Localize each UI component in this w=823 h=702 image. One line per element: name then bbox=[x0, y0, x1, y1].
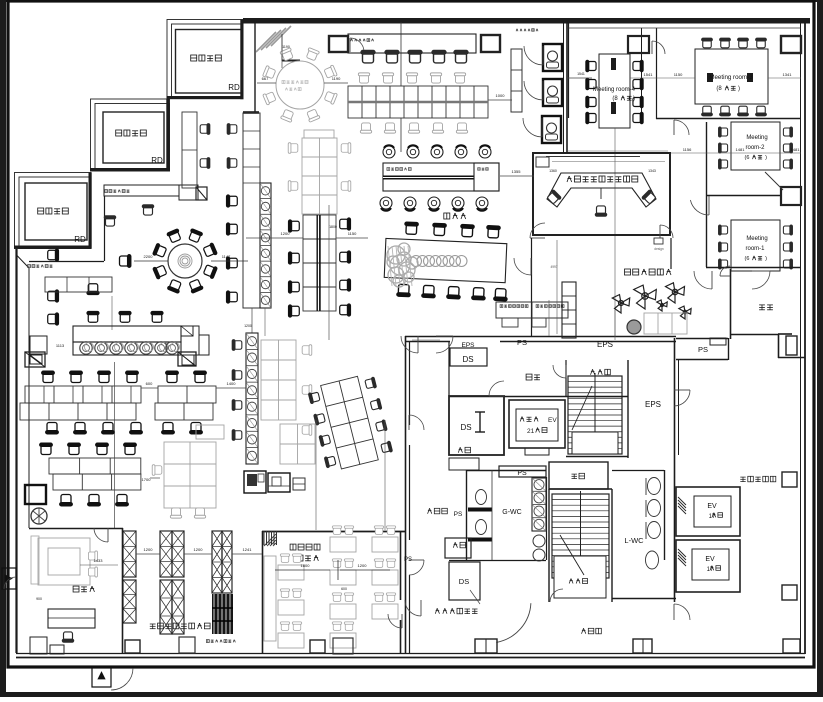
svg-text:EPS: EPS bbox=[645, 400, 661, 409]
meeting room 2 table bbox=[731, 122, 780, 170]
monitoring console desk bbox=[547, 173, 656, 207]
box left of counter bbox=[30, 336, 47, 354]
monitoring inner lines bbox=[552, 161, 665, 163]
floor left wall bbox=[15, 249, 17, 653]
svg-text:600: 600 bbox=[146, 381, 153, 386]
chairs left of lower strip bbox=[232, 340, 242, 351]
EV shaft 2 bbox=[676, 540, 740, 592]
meeting rooms dimension line bbox=[660, 152, 801, 154]
svg-text:1241: 1241 bbox=[243, 547, 253, 552]
door core band west bbox=[401, 336, 418, 353]
desk column A bbox=[182, 112, 197, 188]
svg-text:1355: 1355 bbox=[512, 169, 522, 174]
light desk cluster upper bbox=[302, 138, 337, 214]
columns bottom wall bbox=[125, 640, 140, 653]
G-WC room bbox=[466, 470, 546, 472]
PS box right bbox=[676, 338, 728, 340]
entrance west wall bbox=[531, 238, 533, 336]
svg-text:Meeting room-3: Meeting room-3 bbox=[709, 74, 753, 81]
svg-text:1190: 1190 bbox=[282, 45, 290, 49]
cabinet column B bbox=[243, 113, 260, 308]
utility light table bbox=[38, 538, 90, 585]
bottom wall exit box bbox=[92, 667, 111, 687]
light desk cluster lower bbox=[261, 340, 296, 420]
svg-text:RD: RD bbox=[74, 235, 86, 244]
office long table stools top bbox=[383, 146, 395, 158]
office long table stools bottom bbox=[380, 197, 392, 209]
utility dim bbox=[80, 564, 118, 566]
G-WC scallop cabinet bbox=[532, 478, 546, 531]
desk cluster L2 desks bbox=[49, 458, 141, 474]
svg-text:1400: 1400 bbox=[227, 381, 237, 386]
corridor B labels bbox=[428, 508, 430, 513]
light box above bbox=[304, 130, 334, 138]
page border frame bbox=[0, 0, 6, 697]
corridor B west wall bbox=[405, 336, 407, 654]
hatch strip lower bbox=[246, 333, 258, 464]
column right wall mid bbox=[786, 336, 797, 355]
svg-text:PS: PS bbox=[517, 338, 527, 347]
floor bottom wall bbox=[16, 653, 805, 655]
locker strip 1 bbox=[123, 531, 136, 577]
L-WC fixtures bbox=[648, 478, 661, 495]
big door arc corridor A bbox=[496, 603, 531, 642]
printer small bbox=[293, 478, 305, 490]
column top c3 bbox=[628, 36, 649, 53]
svg-text:design: design bbox=[654, 247, 664, 251]
meeting room 3 table bbox=[695, 49, 768, 104]
svg-text:Meeting: Meeting bbox=[746, 135, 767, 141]
seminar dimension bbox=[275, 569, 330, 571]
anteroom labels bbox=[526, 374, 532, 380]
cabinet strip right of desks bbox=[511, 49, 522, 112]
svg-text:): ) bbox=[633, 96, 635, 102]
escalator hatch top-left bbox=[256, 32, 276, 52]
svg-text:(6: (6 bbox=[745, 256, 750, 262]
dim label 2200 bbox=[134, 260, 168, 262]
anteroom 前室 wall bbox=[730, 269, 732, 339]
core top wall bbox=[405, 336, 676, 338]
svg-text:1000: 1000 bbox=[496, 93, 506, 98]
storage 倉庫 bbox=[549, 462, 608, 489]
desk cluster L1 chairs mid bbox=[46, 423, 59, 434]
door MR2 area bbox=[690, 200, 709, 215]
left wall exit box bbox=[2, 568, 16, 589]
hot water 給湯 lower bbox=[445, 538, 471, 558]
svg-text:1360: 1360 bbox=[549, 169, 557, 173]
seminar tables bbox=[278, 565, 304, 580]
svg-text:EPS: EPS bbox=[597, 340, 613, 349]
locker strip 3 bbox=[212, 531, 222, 593]
svg-text:600: 600 bbox=[341, 587, 347, 591]
svg-text:G-WC: G-WC bbox=[502, 509, 521, 516]
locker dim line bbox=[136, 553, 160, 555]
svg-text:L-WC: L-WC bbox=[624, 536, 644, 545]
door 附室 bbox=[489, 381, 504, 396]
svg-text:1800: 1800 bbox=[329, 225, 337, 229]
corridor A label bbox=[582, 628, 584, 633]
desk cluster L1 chairs top bbox=[42, 371, 55, 382]
DS box top bbox=[450, 348, 487, 366]
svg-text:1541: 1541 bbox=[644, 72, 654, 77]
door entrance west bbox=[514, 258, 531, 275]
desk rows upper office bbox=[361, 51, 375, 63]
roof box 1 (4F roof) bbox=[167, 20, 243, 99]
hot water 給湯 upper bbox=[449, 458, 479, 470]
door corridor doors bbox=[409, 415, 424, 430]
EV hall label bbox=[740, 476, 745, 478]
door MR1 entrance bbox=[694, 271, 712, 289]
meeting room 4 walls bbox=[568, 21, 570, 118]
single chairs upper left bbox=[142, 205, 153, 215]
meeting room 2 walls bbox=[706, 122, 708, 267]
round table mid-left bbox=[168, 244, 202, 278]
desk cluster L2 chairs below bbox=[60, 495, 73, 506]
utility small boxes bbox=[30, 637, 47, 654]
upper office glass wall bbox=[254, 21, 256, 112]
svg-text:1200: 1200 bbox=[194, 547, 204, 552]
seminar room label bbox=[290, 544, 296, 550]
dim 600 1400 bbox=[141, 387, 158, 389]
locker strip 2 bbox=[160, 531, 172, 577]
svg-text:(8: (8 bbox=[612, 96, 618, 102]
door column c3 side bbox=[652, 41, 665, 54]
svg-text:1200: 1200 bbox=[244, 324, 252, 328]
utility room label bbox=[73, 586, 79, 592]
door 前室 bbox=[720, 266, 730, 276]
svg-text:1481: 1481 bbox=[736, 147, 746, 152]
svg-text:): ) bbox=[765, 256, 767, 262]
desk cluster L2 chairs top bbox=[40, 443, 53, 454]
monitoring room bottom door bbox=[530, 223, 545, 238]
door stairA bbox=[553, 365, 566, 378]
svg-text:1343: 1343 bbox=[648, 169, 656, 173]
dim horizontal mid bbox=[412, 339, 440, 341]
dim vertical x557 entrance bbox=[556, 240, 558, 334]
dark angled cluster east bbox=[307, 373, 393, 473]
seminar room walls bbox=[262, 531, 264, 654]
seminar side counter bbox=[264, 556, 276, 641]
meeting rooms inner top line bbox=[567, 27, 801, 29]
G-WC stalls bbox=[476, 490, 487, 505]
wall EPS east x674 bbox=[674, 338, 676, 602]
EV door hatches bbox=[678, 497, 686, 505]
dark desk cluster mid bbox=[303, 215, 336, 311]
svg-text:1541: 1541 bbox=[577, 72, 585, 76]
roof box 3 (4F roof) bbox=[15, 173, 92, 249]
utility dark desk bbox=[48, 609, 95, 628]
alarm valve room label bbox=[435, 608, 437, 613]
svg-text:900: 900 bbox=[36, 597, 42, 601]
desk cluster L1b bbox=[166, 371, 179, 382]
monitoring room label bbox=[567, 176, 569, 182]
entrance label bbox=[625, 269, 631, 275]
coffee circle bbox=[31, 508, 47, 524]
partition near hatch bbox=[281, 34, 283, 61]
phone booth 1 bbox=[543, 44, 562, 71]
desk end-cap boxes bbox=[25, 352, 45, 367]
dim line upper desks bbox=[400, 22, 402, 86]
svg-text:1200: 1200 bbox=[281, 231, 291, 236]
svg-text:Meeting room-4: Meeting room-4 bbox=[593, 87, 636, 93]
seminar door bbox=[388, 614, 402, 628]
counter right boxes bbox=[181, 326, 199, 355]
utility room door bbox=[94, 528, 108, 542]
svg-text:1481: 1481 bbox=[791, 147, 801, 152]
staircase A bbox=[568, 376, 622, 454]
entrance dark circle bbox=[627, 320, 641, 334]
office long table bbox=[383, 163, 499, 191]
DS room lower bbox=[449, 562, 480, 600]
seminar stair hatch bbox=[263, 531, 265, 545]
EV shaft 1 bbox=[676, 487, 740, 536]
desk cluster L1b chairs mid bbox=[162, 423, 175, 434]
round table top (light) bbox=[276, 61, 324, 109]
dim 1200 1150 mid bbox=[246, 237, 303, 239]
svg-text:1433: 1433 bbox=[94, 558, 104, 563]
floor right wall bbox=[800, 21, 802, 654]
phone booth 2 bbox=[543, 79, 562, 106]
svg-text:1700: 1700 bbox=[142, 477, 152, 482]
copier units bbox=[244, 471, 266, 493]
svg-text:1150: 1150 bbox=[348, 231, 357, 236]
svg-text:DS: DS bbox=[462, 355, 473, 364]
emergency EV room bbox=[509, 400, 565, 448]
roof box 2 (4F roof) bbox=[91, 99, 170, 171]
table circle row bbox=[411, 256, 422, 267]
svg-text:21: 21 bbox=[527, 428, 535, 435]
tall cabinet entrance bbox=[562, 282, 576, 338]
scallop strip upper bbox=[260, 183, 271, 308]
white box thick bbox=[25, 485, 46, 504]
counter boxes below monitoring bbox=[496, 302, 568, 318]
meeting room 1 bottom wall bbox=[706, 267, 801, 269]
svg-text:667: 667 bbox=[262, 76, 269, 81]
column top c1 bbox=[329, 36, 348, 52]
booth label bbox=[515, 29, 518, 32]
svg-text:EV: EV bbox=[548, 417, 557, 424]
counter table long bbox=[73, 326, 181, 342]
anteroom 附室 walls bbox=[449, 396, 628, 398]
light cluster right bbox=[164, 442, 216, 508]
staircase B room bbox=[552, 494, 609, 578]
phone booth 3 bbox=[542, 116, 561, 143]
svg-text:1113: 1113 bbox=[56, 343, 65, 348]
wall office-east double bbox=[563, 21, 565, 153]
svg-text:1200: 1200 bbox=[144, 547, 154, 552]
diagonal table bbox=[383, 221, 510, 301]
wall below LWC bbox=[612, 598, 676, 600]
meeting rooms dim line top bbox=[630, 77, 695, 79]
svg-text:1190: 1190 bbox=[332, 76, 341, 81]
locker space label bbox=[150, 623, 156, 625]
svg-text:RD: RD bbox=[228, 83, 240, 92]
utility room walls bbox=[29, 528, 123, 530]
desk cluster L1 desks bbox=[25, 386, 141, 403]
svg-text:Meeting: Meeting bbox=[746, 236, 767, 242]
DS room bbox=[449, 396, 504, 455]
svg-text:1150: 1150 bbox=[674, 72, 683, 77]
svg-text:): ) bbox=[738, 86, 740, 92]
balcony band upper-left bbox=[104, 185, 179, 196]
dim vertical center bbox=[328, 205, 330, 340]
entrance plants bbox=[615, 303, 622, 313]
seminar hatch corner bbox=[264, 534, 276, 546]
office label bbox=[444, 213, 450, 219]
svg-text:1341: 1341 bbox=[783, 72, 793, 77]
svg-text:(8: (8 bbox=[716, 86, 722, 92]
vertical dim x112 bbox=[111, 296, 113, 330]
reception low cabinets bbox=[644, 313, 687, 334]
monitoring chairs bbox=[546, 190, 561, 205]
svg-text:(6: (6 bbox=[745, 155, 750, 161]
column top c2 bbox=[481, 35, 500, 52]
svg-text:EV: EV bbox=[705, 556, 715, 563]
PS strip below DS bbox=[499, 466, 546, 477]
balcony wall mid-left bbox=[104, 196, 106, 261]
svg-text:1147: 1147 bbox=[222, 254, 231, 259]
svg-text:room-1: room-1 bbox=[745, 246, 765, 252]
dimension line round table bbox=[257, 82, 276, 84]
svg-text:PS: PS bbox=[454, 511, 463, 518]
small sign box bbox=[654, 238, 663, 244]
column right c4 bbox=[781, 187, 801, 205]
svg-text:PS: PS bbox=[698, 345, 708, 354]
svg-text:1800: 1800 bbox=[301, 563, 311, 568]
dim 1355 bbox=[500, 175, 534, 177]
columns right wall bbox=[781, 36, 801, 53]
desk row under balcony bbox=[45, 277, 112, 292]
L-WC room bbox=[612, 470, 664, 472]
svg-text:DS: DS bbox=[460, 423, 471, 432]
svg-text:1200: 1200 bbox=[358, 563, 368, 568]
meeting room 1 table bbox=[731, 220, 780, 271]
meeting room 4 table bbox=[599, 54, 630, 128]
svg-text:4997: 4997 bbox=[550, 265, 557, 269]
revision scribble bbox=[387, 246, 405, 264]
floor top wall bbox=[243, 18, 810, 24]
box below lockers bbox=[179, 637, 195, 653]
svg-text:room-2: room-2 bbox=[745, 145, 765, 151]
svg-text:EV: EV bbox=[707, 503, 717, 510]
counter chairs above bbox=[87, 312, 99, 323]
svg-text:1156: 1156 bbox=[683, 147, 692, 152]
dim vertical x615 lower bbox=[614, 310, 616, 336]
svg-text:): ) bbox=[765, 155, 767, 161]
wall right of monitoring bbox=[670, 238, 672, 269]
svg-text:RD: RD bbox=[151, 156, 163, 165]
utility shelf left bbox=[31, 536, 39, 584]
door EV hall bbox=[674, 390, 690, 406]
svg-text:2200: 2200 bbox=[144, 254, 154, 259]
monitoring room walls bbox=[533, 153, 670, 235]
meeting room 3 walls bbox=[656, 118, 801, 120]
chair col mid bbox=[227, 195, 238, 207]
coat hanger dark bbox=[212, 594, 233, 634]
cabinet band below top wall bbox=[348, 34, 476, 53]
svg-text:DS: DS bbox=[459, 577, 469, 586]
